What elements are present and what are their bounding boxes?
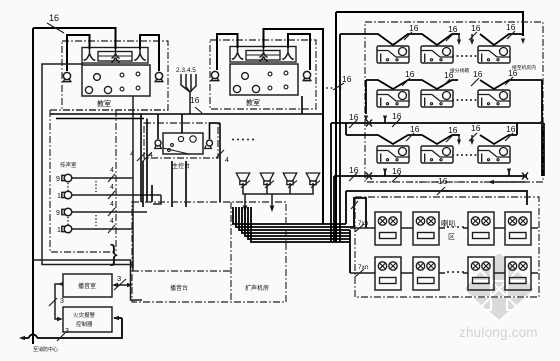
svg-text:传声室: 传声室 <box>60 161 77 169</box>
svg-text:2.3.4.5: 2.3.4.5 <box>176 67 196 74</box>
svg-text:4: 4 <box>110 167 114 174</box>
svg-text:区: 区 <box>448 233 455 241</box>
svg-text:16: 16 <box>49 13 59 23</box>
svg-text:播音台: 播音台 <box>170 284 188 292</box>
svg-text:7xn: 7xn <box>358 220 369 227</box>
svg-text:16: 16 <box>410 124 420 134</box>
svg-text:1: 1 <box>57 193 61 200</box>
svg-text:火灾报警: 火灾报警 <box>73 311 96 319</box>
svg-text:16: 16 <box>409 23 419 33</box>
svg-text:16: 16 <box>448 24 458 34</box>
svg-text:9: 9 <box>56 176 60 183</box>
svg-text:4: 4 <box>149 152 153 159</box>
svg-text:至消防中心: 至消防中心 <box>33 346 58 353</box>
svg-text:教室: 教室 <box>246 98 260 107</box>
svg-text:教室: 教室 <box>97 99 111 108</box>
svg-text:主控台: 主控台 <box>172 162 190 170</box>
svg-text:16: 16 <box>448 125 458 135</box>
svg-text:控制器: 控制器 <box>76 320 93 328</box>
svg-text:3: 3 <box>65 328 69 335</box>
svg-text:zhulong.com: zhulong.com <box>459 325 538 340</box>
svg-text:16: 16 <box>190 95 200 105</box>
svg-text:16: 16 <box>471 123 481 133</box>
svg-text:16: 16 <box>473 69 483 79</box>
svg-text:16: 16 <box>506 124 516 134</box>
svg-text:4: 4 <box>110 184 114 191</box>
svg-text:3: 3 <box>117 274 121 283</box>
svg-text:4: 4 <box>130 151 134 158</box>
svg-text:16: 16 <box>438 176 448 186</box>
svg-text:4: 4 <box>225 157 229 164</box>
svg-text:4: 4 <box>110 201 114 208</box>
svg-text:4: 4 <box>110 218 114 225</box>
svg-text:16: 16 <box>508 68 518 78</box>
svg-text:}: } <box>110 240 118 266</box>
svg-text:喇叭: 喇叭 <box>441 218 456 228</box>
svg-text:16: 16 <box>444 70 454 80</box>
svg-text:9: 9 <box>56 210 60 217</box>
svg-text:播音室: 播音室 <box>78 282 96 290</box>
svg-text:1: 1 <box>57 227 61 234</box>
svg-text:16: 16 <box>342 74 352 84</box>
svg-text:16: 16 <box>471 23 481 33</box>
svg-text:3: 3 <box>60 298 64 305</box>
svg-text:扩声机房: 扩声机房 <box>245 284 269 292</box>
svg-text:16: 16 <box>405 69 415 79</box>
svg-text:16: 16 <box>506 22 516 32</box>
